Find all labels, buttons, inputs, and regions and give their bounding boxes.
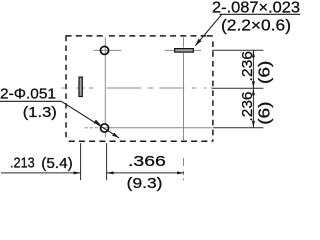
slot S2 vertical (left)	[79, 77, 82, 96]
svg-text:.236: .236	[239, 51, 256, 82]
bottom dimension line .213 (left part)	[1, 172, 81, 174]
arrowhead left at col A	[107, 171, 114, 174]
arrowhead of hole leader (before hole H2)	[94, 120, 101, 126]
arrowhead up at row1	[252, 50, 255, 57]
leader underline for left label	[0, 100, 61, 102]
svg-text:.213: .213	[10, 155, 35, 172]
vertical dimension line .236/.236	[252, 50, 254, 127]
right dimension extension line row1	[212, 49, 263, 51]
svg-text:(6): (6)	[257, 102, 274, 125]
arrowhead up at row2	[252, 88, 255, 95]
arrowhead of slot leader	[195, 39, 201, 46]
hole H1 top circle	[100, 46, 108, 54]
bottom extension line col B	[80, 143, 82, 180]
arrowhead down at row2	[252, 81, 255, 88]
svg-text:2-Φ.051: 2-Φ.051	[0, 85, 56, 102]
relay body outline (dashed rectangle)	[65, 36, 213, 141]
arrowhead down at row3	[252, 121, 255, 128]
svg-text:(1.3): (1.3)	[23, 104, 57, 121]
arrowhead right at col B	[74, 171, 81, 174]
svg-text:.236: .236	[239, 92, 256, 122]
PCB drilling pattern diagram for relay (bottom view)	[0, 0, 300, 192]
arrowhead right at col C	[177, 171, 184, 174]
svg-text:(6): (6)	[257, 61, 274, 84]
centerline col C (through horizontal slot) down to bottom dim	[183, 38, 185, 181]
leader line to slot S1 with arrow	[195, 14, 222, 46]
hole H2 bottom circle	[100, 124, 108, 132]
leader underline for top-right label	[220, 13, 301, 15]
centerline col A (through both holes)	[104, 38, 106, 138]
arrowhead of hole leader (beyond hole H2)	[112, 133, 119, 138]
white background	[0, 0, 300, 192]
right dimension extension line row3	[213, 127, 263, 129]
bottom extension line col A	[106, 143, 108, 180]
bottom dimension line .366 (right part)	[107, 172, 184, 174]
svg-text:(5.4): (5.4)	[41, 155, 72, 172]
right dimension extension line row2	[212, 87, 263, 89]
centerline row1 horizontal ticks at top hole	[94, 49, 202, 51]
leader line through hole H2 with two arrows	[61, 101, 119, 138]
svg-text:.366: .366	[128, 153, 166, 170]
svg-text:(9.3): (9.3)	[127, 175, 163, 192]
centerline row3 horizontal through bottom hole to right	[85, 127, 212, 129]
svg-text:(2.2×0.6): (2.2×0.6)	[221, 17, 291, 34]
slot S1 horizontal (top right)	[175, 49, 194, 53]
centerline row2 (through vertical slot) dash-dot	[62, 87, 213, 89]
